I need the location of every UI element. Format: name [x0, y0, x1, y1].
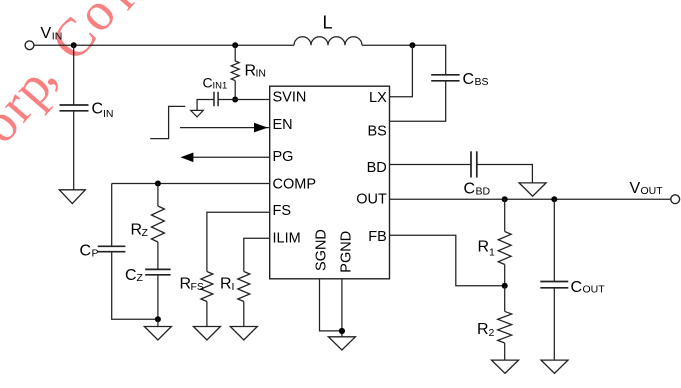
wire PG [193, 156, 270, 158]
wire RI lower [243, 302, 245, 327]
wire CBD to ground [477, 165, 533, 183]
label CIN [92, 101, 114, 121]
node dot VIN/CIN [71, 42, 77, 48]
pin label BS [367, 123, 386, 139]
svg-text:C: C [125, 267, 137, 284]
wire top rail inductor to CBS corner [362, 45, 446, 75]
svg-text:BD: BD [367, 160, 387, 176]
capacitor CP [98, 246, 126, 251]
IC U1 box [270, 86, 390, 279]
pin label LX [369, 90, 387, 106]
wire FB [390, 235, 505, 285]
svg-text:LX: LX [369, 90, 387, 106]
label COUT [571, 279, 606, 296]
wire RIN lower [234, 81, 236, 100]
wire LX [390, 45, 413, 96]
svg-text:FB: FB [368, 229, 387, 245]
svg-text:V: V [630, 180, 641, 197]
node dot RIN top [232, 42, 238, 48]
label RI [220, 276, 234, 294]
step waveform symbol [150, 106, 185, 138]
wire SVIN [235, 99, 270, 101]
wire CIN1 left to ground [197, 100, 214, 111]
svg-text:PGND: PGND [339, 231, 355, 273]
label RIN [245, 63, 267, 80]
label R2 [477, 321, 495, 339]
pin label OUT [356, 191, 387, 207]
wire CZ lower [157, 275, 159, 320]
wire RFS lower [206, 302, 208, 327]
svg-text:R: R [220, 276, 232, 293]
resistor RI [238, 272, 250, 302]
wire COMP [112, 183, 270, 185]
svg-text:C: C [203, 75, 213, 91]
svg-text:C: C [92, 101, 104, 118]
label L [323, 13, 333, 33]
label CBS [463, 71, 489, 88]
svg-text:Z: Z [137, 272, 144, 284]
svg-text:C: C [463, 71, 475, 88]
resistor RZ [151, 206, 164, 242]
svg-text:OUT: OUT [583, 284, 606, 296]
svg-text:SGND: SGND [313, 229, 329, 271]
pin label FS [273, 203, 292, 219]
wire BD to CBD [390, 164, 471, 166]
svg-text:IN: IN [103, 108, 114, 120]
svg-text:R: R [180, 276, 192, 293]
svg-text:IN: IN [52, 31, 63, 43]
ground COUT [541, 360, 568, 373]
wire R2 lower [504, 343, 506, 360]
capacitor CZ [145, 269, 170, 274]
svg-text:orp, Con: orp, Con [0, 0, 155, 157]
ground comp network [144, 327, 171, 341]
svg-text:R: R [131, 222, 143, 239]
label VOUT [630, 180, 664, 197]
wire CP lower [112, 252, 158, 320]
resistor RIN [231, 61, 239, 81]
terminal VIN [25, 41, 34, 50]
label CIN1 [203, 75, 228, 92]
arrowhead PG [181, 153, 194, 163]
node dot COMP/RZ [155, 181, 161, 187]
pin label COMP [273, 177, 317, 193]
svg-text:1: 1 [489, 247, 495, 259]
node dot R1 top [502, 196, 508, 202]
wire PGND [341, 279, 343, 337]
svg-text:COMP: COMP [273, 177, 317, 193]
label VIN [41, 25, 63, 43]
red watermark text [0, 0, 155, 157]
ground R2 [492, 360, 519, 373]
svg-text:R: R [245, 63, 257, 80]
svg-text:FS: FS [191, 281, 204, 293]
pin label SVIN [273, 89, 307, 105]
resistor R1 [498, 232, 511, 265]
svg-text:R: R [478, 239, 490, 256]
svg-text:IN1: IN1 [213, 81, 228, 92]
wire comp ground stub [157, 319, 159, 326]
node dot SGND/PGND [339, 328, 345, 334]
svg-text:EN: EN [273, 117, 293, 133]
node dot LX/L [409, 42, 415, 48]
pin label FB [368, 229, 387, 245]
wire SGND [320, 279, 342, 331]
wire RZ to CZ [157, 242, 159, 269]
wire RZ upper [157, 184, 159, 207]
svg-text:R: R [477, 321, 489, 338]
pin label ILIM [273, 230, 301, 246]
svg-text:P: P [92, 247, 99, 259]
label R1 [478, 239, 496, 259]
svg-text:C: C [80, 243, 92, 260]
svg-text:ILIM: ILIM [273, 230, 301, 246]
capacitor CBS [431, 75, 459, 81]
svg-text:Z: Z [142, 227, 149, 239]
node dot FB junction [502, 283, 508, 289]
wire R1 lower [504, 265, 506, 286]
wire ILIM [244, 238, 270, 271]
wire R1 upper [504, 199, 506, 231]
svg-text:C: C [464, 181, 476, 198]
wire FS [207, 212, 270, 271]
svg-text:BS: BS [475, 76, 489, 88]
wire R2 upper [504, 286, 506, 312]
wire BS to CBS [390, 81, 446, 121]
svg-text:BD: BD [476, 185, 491, 197]
capacitor CBD [471, 151, 477, 177]
svg-text:BS: BS [367, 123, 386, 139]
pin label PG [273, 149, 294, 165]
svg-text:PG: PG [273, 149, 294, 165]
label CP [80, 243, 99, 260]
ground RFS [193, 327, 220, 341]
pin label BD [367, 160, 387, 176]
svg-text:IN: IN [256, 68, 267, 80]
svg-text:C: C [571, 279, 583, 296]
wire CP upper [111, 184, 113, 247]
svg-text:V: V [41, 25, 52, 42]
svg-text:I: I [232, 281, 235, 293]
label CBD [464, 181, 491, 198]
node dot SVIN [232, 97, 238, 103]
terminal VOUT [671, 195, 680, 204]
node dot COUT top [551, 196, 557, 202]
pin label SGND (rotated) [313, 229, 329, 271]
wire COUT upper [553, 199, 555, 281]
wire RIN upper [234, 45, 236, 61]
pin label EN [273, 117, 293, 133]
ground CBD [519, 183, 546, 196]
svg-text:SVIN: SVIN [273, 89, 307, 105]
ground CIN1 small [191, 110, 204, 117]
capacitor CIN1 [214, 92, 218, 106]
wire CIN branch upper [73, 45, 75, 105]
node dot comp ground [155, 316, 161, 322]
inductor L [294, 37, 362, 46]
svg-text:OUT: OUT [356, 191, 387, 207]
pin label PGND (rotated) [339, 231, 355, 273]
ground CIN [59, 190, 85, 204]
svg-text:OUT: OUT [641, 185, 664, 197]
label RZ [131, 222, 149, 239]
ground SGND/PGND [328, 337, 355, 350]
wire CIN1 right [218, 99, 235, 101]
resistor R2 [498, 311, 512, 343]
wire top rail VIN to inductor [34, 44, 295, 46]
capacitor CIN [60, 105, 89, 111]
arrowhead EN [254, 123, 268, 133]
label RFS [180, 276, 204, 294]
svg-text:FS: FS [273, 203, 292, 219]
wire EN [180, 127, 270, 129]
wire CIN lower [73, 111, 75, 190]
wire OUT rail [390, 198, 671, 200]
label CZ [125, 267, 144, 284]
svg-text:2: 2 [489, 327, 495, 339]
resistor RFS [201, 272, 213, 302]
wire COUT lower [553, 288, 555, 360]
ground RI [230, 327, 257, 341]
capacitor COUT [540, 282, 568, 288]
svg-text:L: L [323, 13, 333, 33]
